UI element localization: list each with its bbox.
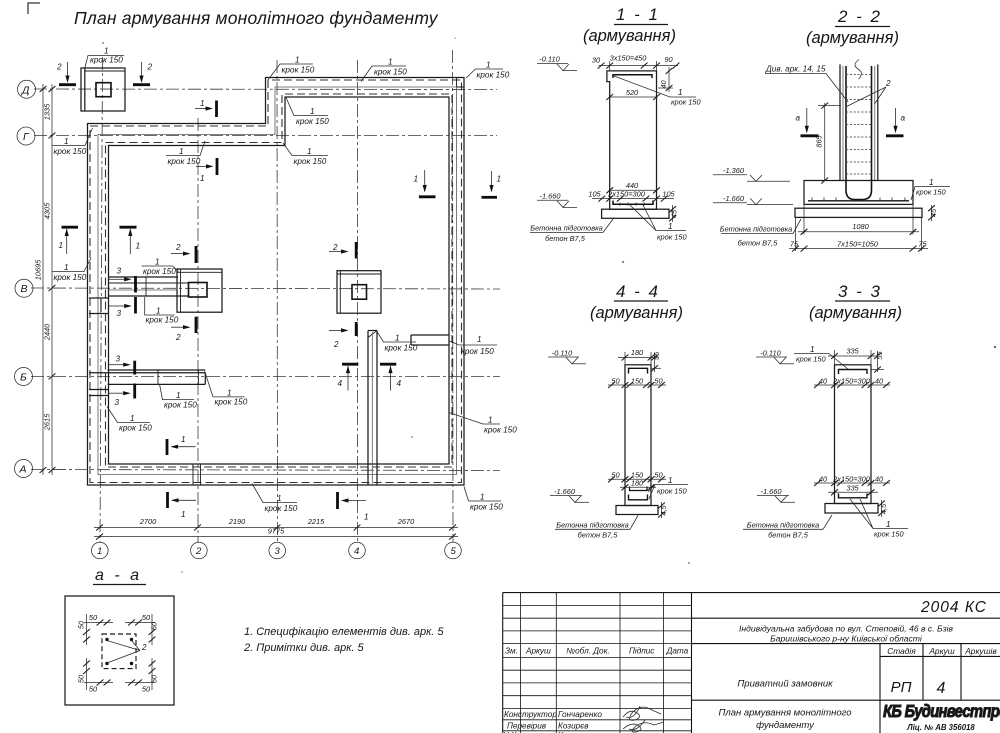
label krok150 below V stub: [145, 297, 179, 325]
svg-text:-1.660: -1.660: [723, 194, 745, 203]
svg-text:крок 150: крок 150: [168, 157, 201, 166]
dim 865: [824, 103, 826, 181]
svg-text:1: 1: [395, 334, 400, 343]
svg-text:3: 3: [275, 546, 281, 557]
svg-text:2: 2: [885, 79, 891, 88]
bottom mesh 3-3: [839, 494, 868, 498]
dims top-right: [125, 622, 155, 624]
top dim row 1-1: [609, 61, 611, 71]
rebar dashed inner loop: [106, 94, 453, 467]
label krok150 at V2 footing: [142, 258, 179, 277]
svg-text:1: 1: [388, 58, 393, 67]
svg-text:9775: 9775: [268, 527, 285, 536]
svg-text:1: 1: [295, 56, 300, 65]
axis circle 2: [191, 542, 208, 559]
footing V2: [177, 269, 222, 312]
label krok150 inner G wall: [166, 141, 205, 166]
wall centre thin loop: [98, 87, 457, 475]
svg-text:50: 50: [77, 620, 86, 629]
corner key top-right: [457, 78, 465, 87]
svg-text:Бетонна підготовка: Бетонна підготовка: [720, 225, 792, 234]
svg-text:2: 2: [147, 63, 153, 72]
rebar dashed outer loop: [90, 80, 462, 483]
column V4: [352, 285, 367, 300]
svg-text:Зм.: Зм.: [505, 647, 518, 656]
svg-text:50: 50: [89, 685, 98, 694]
svg-text:Підпис: Підпис: [629, 647, 654, 656]
dims bottom-left: [84, 682, 113, 684]
svg-text:4: 4: [937, 680, 946, 697]
wall 4-4: [625, 365, 651, 506]
svg-text:2. Примітки див. арк. 5: 2. Примітки див. арк. 5: [243, 642, 365, 654]
svg-text:1: 1: [929, 178, 934, 187]
svg-text:180: 180: [631, 348, 644, 357]
svg-text:Ліц. № АВ 356018: Ліц. № АВ 356018: [906, 723, 975, 732]
svg-text:Аркуш: Аркуш: [928, 646, 954, 656]
left dim line inner: [51, 84, 53, 475]
section mark 1 right room b: [482, 171, 502, 197]
dim 335 top 3-3: [834, 350, 836, 365]
section mark 1 right room a: [414, 170, 436, 197]
svg-text:Дата: Дата: [666, 647, 689, 656]
axis 1 line: [100, 57, 103, 542]
svg-text:1: 1: [678, 88, 683, 97]
svg-text:фундаменту: фундаменту: [756, 720, 815, 731]
svg-text:Перевірив: Перевірив: [507, 722, 547, 731]
svg-text:40: 40: [659, 80, 668, 89]
slab 4-4: [616, 506, 658, 515]
section mark 3 b: [109, 297, 136, 318]
signature 1: [623, 706, 661, 720]
svg-text:крок 150: крок 150: [282, 66, 315, 75]
svg-text:а: а: [796, 114, 801, 123]
footing V4: [337, 271, 381, 314]
svg-text:55: 55: [875, 351, 884, 360]
svg-text:крок 150: крок 150: [484, 426, 517, 435]
bottom brackets 4-4: [630, 487, 648, 491]
svg-text:1: 1: [477, 335, 482, 344]
left dim line outer: [42, 84, 44, 475]
svg-text:Аркушів: Аркушів: [964, 646, 997, 656]
svg-text:4: 4: [397, 379, 402, 388]
dim 55 right 4-4: [654, 353, 656, 372]
axis circle G: [17, 127, 35, 145]
svg-text:Бетонна підготовка: Бетонна підготовка: [530, 224, 602, 233]
svg-text:2: 2: [175, 243, 181, 252]
svg-text:1: 1: [97, 546, 102, 557]
interior: [81, 68, 449, 485]
svg-text:4,5: 4,5: [659, 504, 668, 515]
svg-text:Аркуш: Аркуш: [525, 647, 551, 656]
svg-text:1: 1: [668, 222, 673, 231]
svg-text:1: 1: [488, 416, 493, 425]
svg-text:3: 3: [117, 309, 122, 318]
section mark 2 below V2: [171, 317, 196, 342]
svg-text:4305: 4305: [43, 202, 52, 219]
label krok150 bottom wall centre: [252, 484, 298, 514]
svg-text:крок 150: крок 150: [374, 68, 407, 77]
svg-text:3x150=450: 3x150=450: [610, 54, 648, 63]
svg-text:2: 2: [195, 546, 202, 557]
svg-text:-0.110: -0.110: [539, 55, 560, 64]
dimensions: [34, 84, 459, 540]
label krok150 top right corner: [466, 61, 510, 80]
svg-text:Приватний замовник: Приватний замовник: [737, 679, 833, 690]
bottom rebar 1-1: [613, 201, 653, 205]
svg-text:2440: 2440: [43, 323, 52, 341]
corner bars: [105, 638, 108, 641]
wall outer edge loop: [88, 78, 465, 486]
svg-text:крок 150: крок 150: [143, 267, 176, 276]
svg-text:1: 1: [486, 61, 491, 70]
svg-text:Індивідуальна забудова по вул.: Індивідуальна забудова по вул. Степовій,…: [739, 624, 953, 634]
svg-text:50: 50: [142, 613, 151, 622]
section mark 4 a: [338, 364, 359, 390]
svg-text:2: 2: [333, 340, 339, 349]
svg-text:2: 2: [332, 243, 338, 252]
svg-text:Б: Б: [20, 371, 27, 383]
label krok150 left wall below B: [107, 407, 152, 433]
axis circle D: [18, 80, 36, 98]
bar leaders to label 2: [107, 641, 140, 664]
axis 5 line: [452, 50, 455, 542]
svg-text:1: 1: [668, 476, 673, 485]
section mark 2 left of D1: [56, 62, 76, 85]
column walls 2-2: [839, 64, 841, 180]
svg-text:1: 1: [59, 241, 64, 250]
label krok150 at top step: [268, 56, 315, 81]
svg-text:крок 150: крок 150: [796, 355, 826, 364]
label krok150 top 3-3: [794, 354, 849, 371]
label krok150 bottom 3-3: [850, 499, 908, 529]
svg-text:865: 865: [815, 134, 824, 147]
axis circle V: [15, 279, 33, 297]
svg-text:50: 50: [150, 621, 159, 630]
svg-text:2215: 2215: [307, 517, 325, 526]
wall stub at right wall: [411, 334, 449, 336]
svg-text:50: 50: [77, 674, 86, 683]
axis A line: [31, 470, 500, 471]
dim 520: [610, 96, 657, 98]
svg-text:4: 4: [338, 379, 343, 388]
callouts: [52, 47, 517, 522]
svg-text:РП: РП: [891, 679, 912, 696]
axis 4 line: [357, 60, 359, 542]
svg-text:(армування): (армування): [583, 27, 676, 45]
axis circle 1: [92, 542, 109, 559]
label krok150 left of G wall: [52, 128, 93, 156]
dim 75 1050 75: [795, 217, 797, 251]
label krok150 top 1-1: [670, 96, 696, 98]
dim 180 top 4-4: [624, 352, 626, 365]
svg-text:335: 335: [846, 484, 859, 493]
svg-text:45: 45: [929, 208, 938, 217]
svg-text:План армування монолітного фун: План армування монолітного фундаменту: [74, 8, 439, 28]
svg-text:40: 40: [819, 376, 828, 385]
axis circle 4: [349, 542, 366, 559]
svg-text:КБ Будинвестпроект: КБ Будинвестпроект: [883, 702, 1000, 722]
svg-text:а - а: а - а: [95, 567, 142, 584]
dims top-left: [84, 622, 113, 624]
label krok150 left of V stub: [52, 258, 91, 282]
signature 2: [623, 720, 664, 732]
detail frame: [65, 596, 174, 705]
svg-text:крок 150: крок 150: [657, 487, 687, 496]
svg-text:1. Специфікацію елементів див.: 1. Специфікацію елементів див. арк. 5: [244, 626, 444, 638]
svg-text:3: 3: [117, 267, 122, 276]
svg-text:1: 1: [810, 345, 815, 354]
label krok150 under step corner: [283, 143, 328, 166]
dim 45 right 2-2: [931, 205, 933, 221]
label krok150 below B stub: [160, 384, 198, 410]
top bracket 4-4: [629, 368, 648, 373]
svg-text:2x150=300: 2x150=300: [832, 474, 871, 483]
svg-text:-1.660: -1.660: [554, 487, 576, 496]
dim 45 4-4: [661, 502, 663, 518]
svg-text:-0.110: -0.110: [760, 348, 781, 357]
svg-text:крок 150: крок 150: [461, 347, 494, 356]
svg-text:-1.660: -1.660: [761, 487, 783, 496]
svg-text:Конструктор: Конструктор: [504, 710, 557, 719]
svg-text:бетон В7,5: бетон В7,5: [768, 530, 809, 539]
axis circle 5: [445, 542, 462, 559]
svg-text:2: 2: [175, 333, 181, 342]
dim 1080: [803, 204, 805, 234]
section mark 1 below G inner: [196, 158, 217, 183]
svg-text:105: 105: [662, 190, 675, 199]
svg-text:крок 150: крок 150: [164, 401, 197, 410]
svg-text:55: 55: [652, 351, 661, 360]
stirrup rungs: [846, 75, 872, 175]
section 1-1 wall outline: [607, 71, 657, 209]
svg-text:1: 1: [179, 147, 184, 156]
section mark 4 b: [380, 364, 402, 390]
svg-text:2004 КС: 2004 КС: [920, 599, 987, 616]
svg-text:крок 150: крок 150: [54, 273, 87, 282]
svg-text:1: 1: [104, 47, 109, 56]
bottom dim line inner: [94, 527, 458, 529]
svg-text:1080: 1080: [852, 222, 869, 231]
inner dashed column: [102, 634, 136, 669]
svg-text:1: 1: [497, 175, 502, 184]
svg-text:1: 1: [200, 99, 205, 108]
axis circle B: [15, 368, 33, 386]
dim 40 right 1-1: [668, 67, 670, 92]
svg-text:крок 150: крок 150: [215, 398, 248, 407]
label krok150 thin wall: [377, 332, 418, 353]
section mark 3 d: [109, 384, 135, 408]
top bracket 3-3: [839, 370, 868, 375]
svg-text:1 - 1: 1 - 1: [616, 5, 660, 24]
svg-text:2615: 2615: [43, 413, 52, 431]
svg-text:Див. арк. 14, 15: Див. арк. 14, 15: [765, 65, 826, 74]
svg-text:бетон В7,5: бетон В7,5: [578, 530, 619, 539]
column footing D1: [81, 68, 125, 111]
label krok150 bottom right inside: [449, 413, 517, 435]
joint lines in bottom wall at axis 2: [192, 464, 194, 485]
svg-text:-1.660: -1.660: [540, 192, 562, 201]
svg-text:7x150=1050: 7x150=1050: [837, 239, 879, 248]
svg-text:2190: 2190: [228, 517, 246, 526]
section mark 1 below bottom wall b: [338, 492, 369, 522]
section mark 1 above bottom wall: [167, 435, 196, 455]
axis D line: [34, 88, 497, 91]
svg-text:3 - 3: 3 - 3: [838, 282, 882, 301]
svg-text:1: 1: [277, 494, 282, 503]
section mark 1 near axis2 top: [195, 99, 217, 117]
svg-text:2670: 2670: [397, 517, 415, 526]
svg-text:40: 40: [819, 474, 828, 483]
svg-text:2: 2: [56, 63, 62, 72]
dims bottom-right: [125, 682, 155, 684]
svg-text:№обл. Док.: №обл. Док.: [566, 647, 609, 656]
thin partition wall near axis 4: [367, 331, 369, 486]
axis circle 3: [269, 542, 286, 559]
svg-text:75: 75: [790, 239, 799, 248]
svg-text:крок 150: крок 150: [916, 188, 946, 197]
svg-text:В: В: [21, 283, 28, 295]
svg-text:2700: 2700: [139, 517, 157, 526]
svg-text:45: 45: [670, 209, 679, 218]
svg-text:1: 1: [130, 414, 135, 423]
wall inner edge loop: [109, 97, 450, 464]
walls: [88, 78, 465, 486]
title block frame: [503, 593, 1000, 733]
svg-text:крок 150: крок 150: [470, 503, 503, 512]
svg-text:2x150=300: 2x150=300: [832, 376, 871, 385]
wall stub below B: [89, 389, 109, 391]
svg-text:335: 335: [846, 346, 859, 355]
axis circle A: [15, 460, 33, 478]
svg-text:Баришівського р-ну Київської о: Баришівського р-ну Київської області: [770, 634, 923, 644]
section mark 2 below V4: [329, 322, 356, 349]
svg-text:105: 105: [588, 190, 601, 199]
label krok150 at footing D1: [85, 47, 124, 69]
wall stub V from left wall: [109, 276, 179, 278]
svg-text:50: 50: [89, 613, 98, 622]
axis lines horizontal: [15, 80, 501, 477]
svg-text:1: 1: [181, 510, 186, 519]
bottom mesh 2-2: [808, 200, 909, 202]
svg-text:3: 3: [116, 355, 121, 364]
label krok150 4-4: [648, 485, 688, 500]
footing 2-2: [804, 181, 913, 205]
scan corner mark: [28, 3, 40, 14]
section mark 1 below bottom wall a: [168, 492, 197, 519]
svg-text:50: 50: [150, 674, 159, 683]
svg-text:Бетонна підготовка: Бетонна підготовка: [556, 520, 628, 529]
svg-text:крок 150: крок 150: [265, 504, 298, 513]
base slab 1-1: [602, 209, 669, 218]
svg-text:крок 150: крок 150: [477, 71, 510, 80]
dim 45 3-3: [881, 500, 883, 517]
svg-text:План армування монолітного: План армування монолітного: [718, 708, 851, 719]
wall stub below V: [89, 297, 109, 299]
svg-text:1: 1: [480, 493, 485, 502]
svg-text:Бетонна підготовка: Бетонна підготовка: [747, 520, 819, 529]
svg-text:крок 150: крок 150: [874, 530, 904, 539]
dim 55 right 3-3: [877, 351, 879, 372]
axis B line: [31, 375, 500, 377]
svg-text:2x150=300: 2x150=300: [607, 190, 646, 199]
axis G line: [34, 135, 497, 137]
axis V line: [31, 288, 500, 289]
svg-text:2 - 2: 2 - 2: [837, 7, 882, 26]
svg-text:крок 150: крок 150: [119, 424, 152, 433]
svg-text:150: 150: [631, 376, 644, 385]
svg-text:1: 1: [64, 263, 69, 272]
section mark 2 right of D1: [133, 62, 153, 85]
svg-text:1: 1: [136, 242, 141, 251]
column V2: [189, 283, 208, 298]
svg-text:1: 1: [181, 435, 186, 444]
wall stub B from left wall: [108, 369, 206, 371]
svg-text:1: 1: [64, 137, 69, 146]
section mark 2 above V2: [171, 243, 196, 263]
svg-text:крок 150: крок 150: [90, 56, 123, 65]
svg-text:4: 4: [354, 546, 359, 557]
left table grid: [503, 593, 692, 733]
svg-text:Стадія: Стадія: [887, 646, 916, 656]
svg-text:1: 1: [155, 258, 160, 267]
svg-text:крок 150: крок 150: [296, 117, 329, 126]
svg-text:30: 30: [592, 56, 601, 65]
axis 3 line: [276, 60, 279, 542]
section mark 1 left wall inside: [120, 227, 141, 254]
label krok150 bottom 1-1: [630, 205, 686, 231]
svg-text:а: а: [901, 114, 906, 123]
svg-text:А: А: [19, 463, 27, 475]
svg-text:1335: 1335: [43, 103, 52, 120]
svg-text:40: 40: [875, 376, 884, 385]
svg-text:крок 150: крок 150: [657, 233, 687, 242]
slab 3-3: [825, 504, 878, 514]
svg-text:1: 1: [310, 107, 315, 116]
svg-text:1: 1: [307, 147, 312, 156]
label krok150 under top wall: [286, 98, 329, 127]
svg-text:крок 150: крок 150: [294, 157, 327, 166]
svg-text:бетон В7,5: бетон В7,5: [738, 239, 779, 248]
svg-text:520: 520: [626, 88, 639, 97]
svg-text:50: 50: [142, 685, 151, 694]
svg-text:4,5: 4,5: [879, 503, 888, 514]
svg-text:крок 150: крок 150: [146, 316, 179, 325]
wall 3-3: [835, 365, 872, 504]
svg-text:бетон В7,5: бетон В7,5: [545, 234, 586, 243]
svg-text:1: 1: [364, 513, 369, 522]
column D1: [96, 83, 111, 97]
svg-text:2: 2: [141, 643, 147, 652]
svg-text:крок 150: крок 150: [385, 344, 418, 353]
svg-text:-0.110: -0.110: [552, 348, 573, 357]
column rebar 2-2: [846, 66, 872, 200]
svg-text:3: 3: [115, 398, 120, 407]
svg-text:180: 180: [631, 479, 644, 488]
section mark 3 a: [109, 267, 136, 293]
svg-text:1: 1: [156, 307, 161, 316]
svg-text:крок 150: крок 150: [671, 98, 701, 107]
svg-text:4 - 4: 4 - 4: [616, 282, 660, 301]
label krok150 right of B stub: [205, 371, 248, 407]
section mark 3 c: [109, 355, 135, 375]
svg-text:1: 1: [176, 391, 181, 400]
section mark 2 above V4: [329, 242, 356, 259]
svg-text:(армування): (армування): [809, 304, 902, 322]
svg-text:1: 1: [200, 174, 205, 183]
svg-text:1: 1: [227, 389, 232, 398]
svg-text:40: 40: [875, 474, 884, 483]
svg-text:Д: Д: [21, 84, 30, 96]
